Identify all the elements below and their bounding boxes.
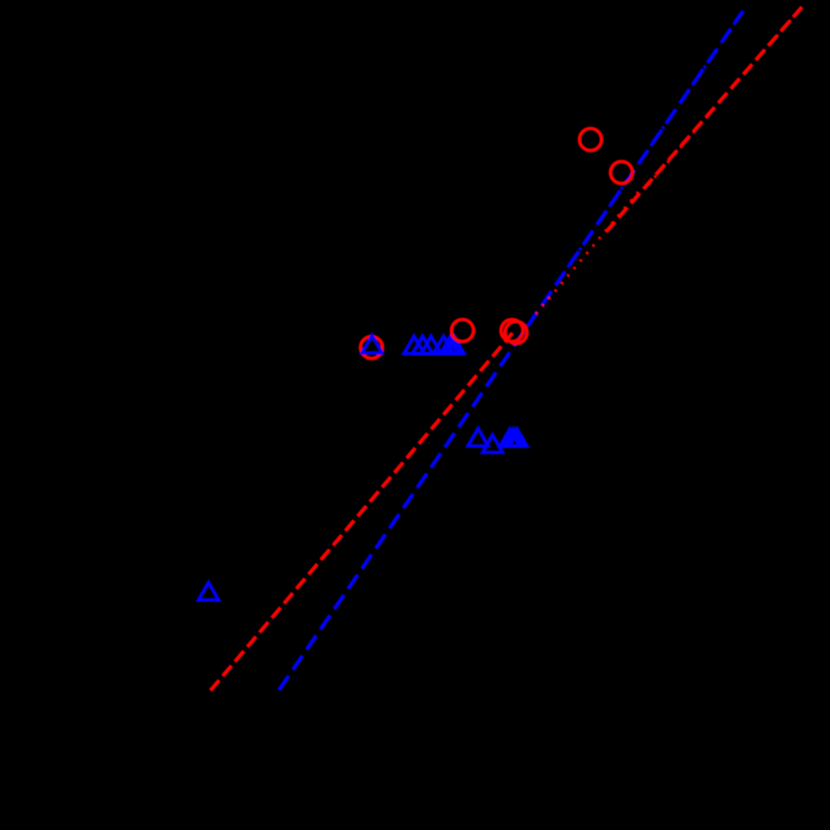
red circle marker C2 <box>611 162 633 184</box>
small triangle t9 <box>448 345 458 354</box>
blue triangle TA lower cluster <box>468 429 488 446</box>
red circle marker C1 <box>580 129 602 151</box>
blue triangle TC3 <box>507 429 527 446</box>
red dashed regression line upper segment <box>606 7 802 232</box>
small blue triangle TC4 <box>509 437 519 446</box>
red circle marker C4b <box>505 322 527 344</box>
red circle marker C5 <box>361 337 383 359</box>
red dotted regression line lower part <box>536 190 640 314</box>
blue triangle TB lower cluster <box>483 435 503 452</box>
red circle marker C3 <box>452 320 474 342</box>
blue dotted regression line <box>544 11 743 302</box>
triangle t5 <box>434 336 454 353</box>
triangle t8 <box>444 336 464 353</box>
blue triangle cluster middle: t2 <box>404 336 424 353</box>
triangle t3 <box>413 336 433 353</box>
blue triangle marker T1 inside C5 <box>362 336 382 353</box>
blue triangle TC1 <box>500 429 520 446</box>
blue triangle TC2 <box>504 429 524 446</box>
single blue triangle bottom left <box>199 583 219 600</box>
red circle marker C4a <box>501 320 523 342</box>
triangle t7 <box>441 336 461 353</box>
blue dashed regression line <box>279 11 743 690</box>
triangle t4 <box>421 336 441 353</box>
red dashed regression line lower segment <box>211 333 513 691</box>
red dotted regression line upper part <box>645 7 802 189</box>
